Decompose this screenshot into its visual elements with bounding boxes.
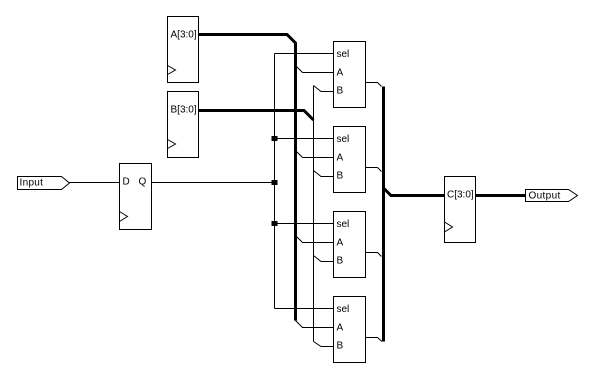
wire Input to D xyxy=(70,182,120,184)
clock triangle C xyxy=(445,222,453,232)
svg-text:A: A xyxy=(337,238,344,249)
svg-text:D: D xyxy=(123,177,130,188)
mux U3 xyxy=(334,212,366,278)
register B[3:0] xyxy=(168,92,199,158)
svg-text:A[3:0]: A[3:0] xyxy=(171,30,197,41)
svg-text:A: A xyxy=(337,153,344,164)
svg-text:A: A xyxy=(337,68,344,79)
bus C branch to register xyxy=(384,188,445,196)
register A[3:0] xyxy=(168,17,199,83)
svg-text:Output: Output xyxy=(529,191,561,202)
wire A bit to U2 A xyxy=(296,151,334,158)
wire U2 output xyxy=(366,168,382,172)
wire sel net vertical xyxy=(274,54,276,309)
clock triangle U5 xyxy=(120,212,128,222)
wire B bit to U2 B xyxy=(314,171,334,177)
wire B bit to U3 B xyxy=(314,256,334,262)
svg-text:B: B xyxy=(337,341,344,352)
svg-text:Input: Input xyxy=(20,178,44,189)
output port Output xyxy=(526,190,578,202)
mux U1 xyxy=(334,42,366,108)
wire sel to mux U1 xyxy=(275,53,334,55)
bus B[3:0] xyxy=(199,111,314,121)
wire B bit to U1 B xyxy=(314,86,334,92)
wire U1 output xyxy=(366,83,382,87)
bus C to output port xyxy=(476,194,526,197)
clock triangle A xyxy=(168,66,176,75)
svg-text:sel: sel xyxy=(337,134,350,145)
bus C vertical xyxy=(382,87,385,342)
svg-text:B: B xyxy=(337,171,344,182)
svg-text:C[3:0]: C[3:0] xyxy=(447,190,474,201)
wire A bit to U3 A xyxy=(296,236,334,243)
wire A bit to U4 A xyxy=(296,321,334,328)
junction dot sel/Q xyxy=(272,180,278,185)
register C[3:0] xyxy=(445,177,476,243)
junction dot sel/U2 xyxy=(272,136,278,141)
svg-text:Q: Q xyxy=(139,177,147,188)
wire sel to mux U2 xyxy=(275,138,334,140)
svg-text:B: B xyxy=(337,86,344,97)
junction dot sel/U3 xyxy=(272,221,278,226)
D flip-flop U5 xyxy=(120,164,152,230)
svg-text:B[3:0]: B[3:0] xyxy=(171,105,197,116)
svg-text:sel: sel xyxy=(337,304,350,315)
svg-text:B: B xyxy=(337,256,344,267)
svg-text:sel: sel xyxy=(337,219,350,230)
mux U2 xyxy=(334,127,366,193)
mux U4 xyxy=(334,297,366,363)
svg-text:A: A xyxy=(337,323,344,334)
wire sel to mux U3 xyxy=(275,223,334,225)
wire A bit to U1 A xyxy=(296,66,334,73)
svg-text:sel: sel xyxy=(337,49,350,60)
bus A[3:0] xyxy=(199,35,296,321)
wire Q to sel net xyxy=(152,182,275,184)
wire U4 output xyxy=(366,338,383,342)
input port Input xyxy=(18,177,70,190)
wire B net vertical xyxy=(313,86,315,342)
clock triangle B xyxy=(168,140,176,149)
wire sel to mux U4 xyxy=(275,308,334,310)
wire U3 output xyxy=(366,253,382,257)
wire B bit to U4 B xyxy=(314,342,334,347)
